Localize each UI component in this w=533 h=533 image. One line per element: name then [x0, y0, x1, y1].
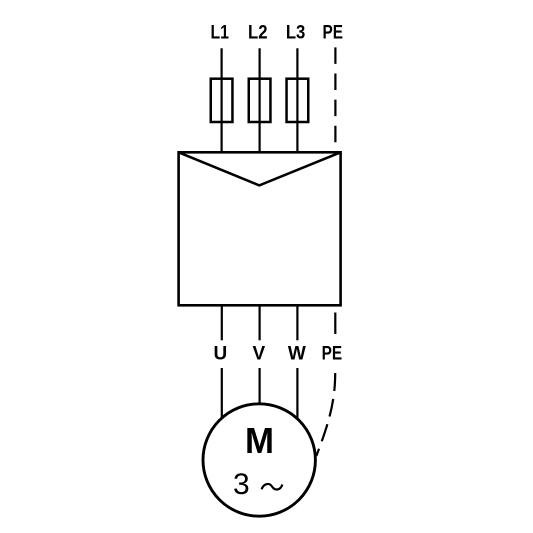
- wire PE dashed (top): [334, 47, 336, 142]
- fuse F3: [287, 79, 309, 122]
- svg-text:L1: L1: [210, 23, 229, 44]
- motor tilde symbol: [262, 484, 283, 490]
- svg-text:L2: L2: [248, 23, 268, 44]
- svg-text:L3: L3: [286, 23, 306, 44]
- chevron inside box: [179, 152, 341, 185]
- fuse F1: [211, 79, 233, 122]
- svg-text:V: V: [253, 343, 266, 364]
- svg-text:M: M: [245, 420, 274, 461]
- svg-text:U: U: [214, 343, 228, 364]
- wire L3 to box: [296, 48, 298, 152]
- wire L1 to box: [221, 48, 223, 152]
- wire PE dashed curve to motor: [316, 373, 335, 456]
- wire W from box: [296, 305, 298, 340]
- wire U to motor: [221, 368, 223, 422]
- svg-text:3: 3: [233, 468, 250, 501]
- svg-text:PE: PE: [323, 23, 344, 44]
- svg-text:W: W: [288, 343, 306, 364]
- wire L2 to box: [259, 48, 261, 152]
- wire V to motor: [259, 368, 261, 408]
- wire PE dash below box: [334, 313, 336, 335]
- wire W to motor: [296, 368, 298, 423]
- wire V from box: [259, 305, 261, 340]
- svg-text:PE: PE: [322, 343, 343, 364]
- fuse F2: [249, 79, 271, 122]
- starter box U1: [179, 152, 341, 305]
- wire U from box: [221, 305, 223, 340]
- motor M1 circle: [203, 404, 315, 516]
